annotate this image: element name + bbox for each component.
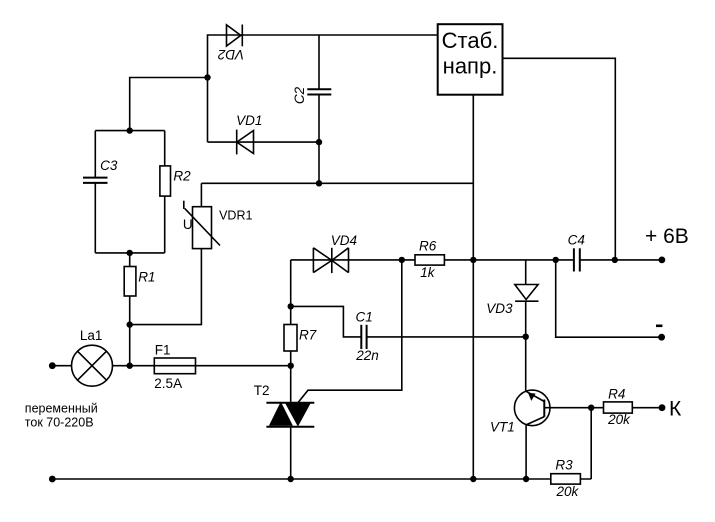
svg-text:напр.: напр. xyxy=(443,53,498,78)
node stab bottom on control row xyxy=(470,257,476,263)
wire C3/R2 loop top xyxy=(95,130,164,132)
svg-text:U: U xyxy=(183,217,193,232)
svg-text:R2: R2 xyxy=(173,168,191,183)
wire mid horizontal xyxy=(201,182,473,184)
svg-text:ток 70-220В: ток 70-220В xyxy=(25,415,94,429)
node mid wire xyxy=(316,180,322,186)
label U xyxy=(183,217,193,232)
label C4 xyxy=(568,233,585,248)
terminal K xyxy=(659,404,666,411)
node dots xyxy=(49,74,665,482)
wire R1-VDR1 link xyxy=(130,249,202,325)
wire node A link xyxy=(130,78,208,131)
node lamp/fuse xyxy=(127,363,133,369)
wire stabilizer right output xyxy=(503,58,616,260)
wire main AC row xyxy=(52,365,71,367)
label +6V xyxy=(645,225,689,248)
wire R7 bottom xyxy=(290,351,292,366)
diode VD3 xyxy=(515,285,539,302)
wire R2 branch xyxy=(164,131,166,166)
label T2 xyxy=(254,383,270,398)
label R4 xyxy=(608,386,625,401)
fuse F1 xyxy=(154,358,195,374)
svg-text:20k: 20k xyxy=(607,412,631,427)
svg-text:C2: C2 xyxy=(292,86,307,104)
node R7 top xyxy=(288,303,294,309)
label C2 xyxy=(292,86,307,104)
label R2 xyxy=(173,168,191,183)
resistor R7 xyxy=(284,325,297,352)
wire R3 riser xyxy=(590,408,592,479)
varistor VDR1 xyxy=(184,201,220,249)
wire T2 bottom xyxy=(290,427,292,479)
svg-text:R7: R7 xyxy=(299,328,317,343)
resistor R3 xyxy=(551,474,581,484)
label VD3 xyxy=(486,301,513,316)
label R1 xyxy=(138,269,155,284)
svg-text:VD2: VD2 xyxy=(217,47,244,62)
wire triac gate xyxy=(298,260,402,403)
svg-text:1k: 1k xyxy=(420,265,436,280)
node gate/R6 xyxy=(399,257,405,263)
svg-text:R4: R4 xyxy=(608,386,625,401)
node R7 bottom xyxy=(288,363,294,369)
svg-text:R3: R3 xyxy=(555,457,573,472)
label 2.5A xyxy=(154,376,182,391)
node minus tap xyxy=(553,257,559,263)
label 1k xyxy=(420,265,436,280)
label VD4 xyxy=(331,233,357,248)
svg-text:F1: F1 xyxy=(155,343,171,358)
svg-text:К: К xyxy=(669,397,682,420)
label K xyxy=(669,397,682,420)
wire bottom rail xyxy=(52,478,591,480)
svg-text:2.5A: 2.5A xyxy=(154,376,182,391)
wire minus output xyxy=(556,260,662,337)
label R7 xyxy=(299,328,317,343)
wire C3/R2 loop bottom xyxy=(95,252,164,254)
svg-text:VD4: VD4 xyxy=(331,233,357,248)
wire VDR1 top xyxy=(200,183,202,206)
terminal minus xyxy=(658,334,665,341)
svg-text:22n: 22n xyxy=(355,348,379,363)
resistor R4 xyxy=(604,402,633,413)
wire stabilizer bottom xyxy=(472,95,474,479)
svg-text:La1: La1 xyxy=(80,328,103,343)
node C3 loop top xyxy=(127,127,133,133)
label 22n xyxy=(355,348,379,363)
wire C3 branch xyxy=(94,131,96,178)
transistor VT1 xyxy=(514,390,550,479)
svg-text:VD3: VD3 xyxy=(486,301,513,316)
node at VD2 left xyxy=(204,74,210,80)
node stab vertical rail xyxy=(470,476,476,482)
wire R1 branch xyxy=(129,253,131,267)
svg-text:R6: R6 xyxy=(419,239,437,254)
svg-text:C1: C1 xyxy=(356,310,373,325)
terminal AC left xyxy=(49,362,56,369)
diode VD2 xyxy=(227,25,243,47)
wire control row xyxy=(291,259,574,261)
stabilizer box U1 xyxy=(438,24,503,95)
capacitor C1 xyxy=(361,325,366,349)
node base/R4 xyxy=(588,405,594,411)
svg-text:переменный: переменный xyxy=(25,401,98,415)
diode VD1 xyxy=(237,130,254,155)
svg-text:C4: C4 xyxy=(568,233,585,248)
node VD1-C2 xyxy=(316,139,322,145)
svg-text:C3: C3 xyxy=(100,158,118,173)
lamp La1 xyxy=(72,345,113,386)
label C3 xyxy=(100,158,118,173)
wire C2 bottom node xyxy=(318,142,320,183)
svg-text:T2: T2 xyxy=(254,383,270,398)
wire VD1 row xyxy=(208,141,320,143)
label minus xyxy=(656,325,662,328)
label VD2 xyxy=(217,47,244,62)
resistor R6 xyxy=(415,255,444,265)
node VT1 emitter rail xyxy=(523,476,529,482)
label 20k R3 xyxy=(556,484,580,499)
terminal rail left xyxy=(49,476,56,483)
label R3 xyxy=(555,457,573,472)
wire C1 path xyxy=(291,306,362,337)
wire VD3 branch xyxy=(525,260,527,285)
svg-text:Стаб.: Стаб. xyxy=(442,28,499,53)
svg-text:20k: 20k xyxy=(556,484,580,499)
label VD1 xyxy=(236,113,262,128)
wire C2 branch xyxy=(318,35,320,89)
capacitor C2 xyxy=(307,89,331,94)
resistor R2 xyxy=(160,166,171,196)
wire top AC line to stabilizer xyxy=(208,35,438,142)
label AC source text xyxy=(25,401,98,429)
resistor R1 xyxy=(124,267,136,297)
wire R4 to K terminal xyxy=(632,407,662,409)
label F1 xyxy=(155,343,171,358)
diac VD4 xyxy=(313,248,348,273)
svg-text:VT1: VT1 xyxy=(490,420,515,435)
wire VD4 branch down xyxy=(290,260,292,325)
wire VT1 base to R4 xyxy=(544,407,603,409)
capacitor C3 xyxy=(83,178,108,183)
node R1 bottom xyxy=(127,321,133,327)
svg-text:VD1: VD1 xyxy=(236,113,262,128)
svg-text:VDR1: VDR1 xyxy=(219,209,252,223)
triac T2 xyxy=(266,403,314,427)
capacitor C4 xyxy=(574,248,580,271)
label 20k R4 xyxy=(607,412,631,427)
label C1 xyxy=(356,310,373,325)
svg-text:R1: R1 xyxy=(138,269,155,284)
label VDR1 xyxy=(219,209,252,223)
node VD3 bottom xyxy=(523,334,529,340)
label R6 xyxy=(419,239,437,254)
svg-text:+ 6В: + 6В xyxy=(645,225,689,248)
node T2 bottom rail xyxy=(288,476,294,482)
label VT1 xyxy=(490,420,515,435)
terminal +6V xyxy=(659,257,666,264)
node C3 loop bottom xyxy=(127,250,133,256)
wire T2 top xyxy=(290,366,292,403)
label La1 xyxy=(80,328,103,343)
node stab right output xyxy=(612,257,618,263)
